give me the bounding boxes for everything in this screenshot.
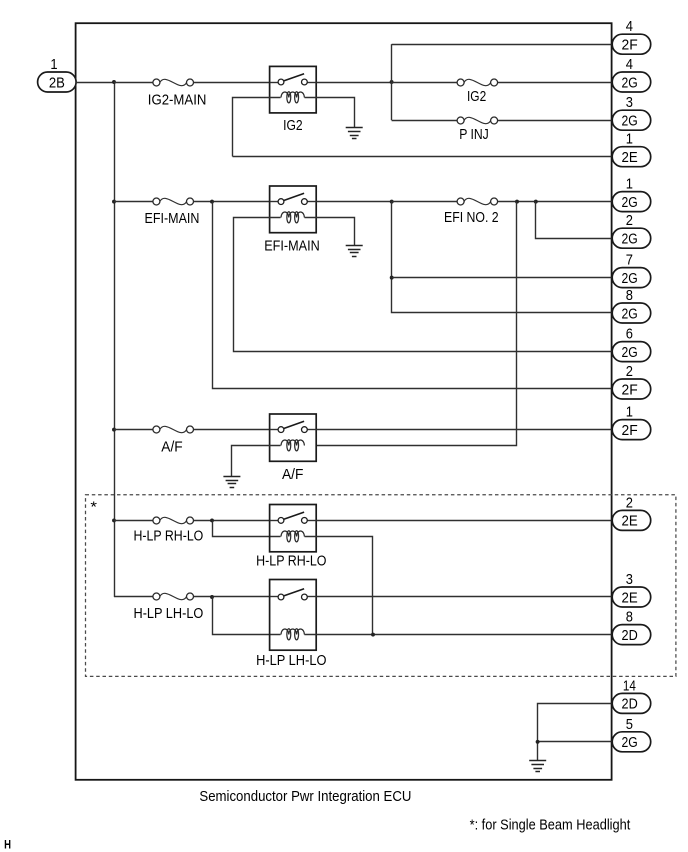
wire bus to fuse H-LP RH-LO xyxy=(114,520,153,522)
svg-text:2E: 2E xyxy=(622,513,638,530)
wire fuse EFI-MAIN to relay xyxy=(193,201,269,203)
wire relay EFI-MAIN output to node xyxy=(316,201,392,203)
connector 2G pin 5 xyxy=(612,732,651,752)
label fuse H-LP RH-LO xyxy=(134,528,204,544)
label relay EFI-MAIN xyxy=(264,238,320,254)
svg-text:*: for Single Beam Headlight: *: for Single Beam Headlight xyxy=(470,817,631,833)
caption ECU name xyxy=(199,789,411,805)
fuse H-LP RH-LO xyxy=(153,517,194,524)
wire bus to fuse EFI-MAIN xyxy=(114,201,153,203)
svg-text:2G: 2G xyxy=(622,194,638,211)
wire to connector 2G pin 7 xyxy=(392,277,613,279)
connector 2G pin 6 xyxy=(612,342,651,362)
ECU case outline xyxy=(76,23,612,780)
connector 2D pin 14 xyxy=(612,693,651,713)
svg-text:H-LP RH-LO: H-LP RH-LO xyxy=(256,554,326,570)
junction H-LP RH-LO fuse output xyxy=(210,518,214,522)
svg-text:2G: 2G xyxy=(622,113,638,130)
wire to connector 2G pin 2 xyxy=(536,202,613,239)
connector 2G pin 3 xyxy=(612,110,651,130)
caption footnote xyxy=(470,817,631,833)
connector 2G pin 8 xyxy=(612,303,651,323)
wire relay EFI-MAIN coil right lead xyxy=(305,218,355,246)
svg-text:2F: 2F xyxy=(622,381,638,398)
label relay IG2 xyxy=(283,118,303,134)
svg-text:2: 2 xyxy=(626,213,633,229)
connector 2G pin 3 label xyxy=(626,95,633,111)
wire fuse H-LP RH-LO to relay xyxy=(193,520,269,522)
junction IG2 output node xyxy=(390,80,394,84)
svg-text:3: 3 xyxy=(626,572,633,588)
junction bus A/F row xyxy=(112,428,116,432)
connector 2B xyxy=(38,72,77,92)
svg-text:1: 1 xyxy=(626,132,633,148)
junction bus EFI-MAIN row xyxy=(112,200,116,204)
wire fuse P INJ to connector 2G pin 3 xyxy=(498,120,613,122)
svg-text:2G: 2G xyxy=(622,305,638,322)
svg-text:2E: 2E xyxy=(622,589,638,606)
svg-text:Semiconductor Pwr Integration: Semiconductor Pwr Integration ECU xyxy=(199,789,411,805)
svg-text:2E: 2E xyxy=(622,149,638,166)
svg-text:7: 7 xyxy=(626,253,633,269)
svg-text:4: 4 xyxy=(626,57,633,73)
fuse P INJ xyxy=(457,117,498,124)
wire junction down to 2F pin 2 row xyxy=(213,202,613,389)
label fuse EFI-MAIN xyxy=(145,211,200,227)
svg-text:2G: 2G xyxy=(622,734,638,751)
dashed region (Single Beam Headlight option) xyxy=(86,495,676,677)
wire coil feed RH xyxy=(213,521,281,537)
connector 2G pin 6 label xyxy=(626,327,633,343)
connector 2G pin 2 label xyxy=(626,213,633,229)
wire vertical to A/F coil xyxy=(317,202,517,446)
fuse EFI NO. 2 xyxy=(457,198,498,205)
svg-text:14: 14 xyxy=(623,678,636,694)
wire 2B to bus junction xyxy=(76,82,114,84)
label fuse EFI NO. 2 xyxy=(444,210,499,226)
svg-text:1: 1 xyxy=(50,57,57,73)
wire connector 2G pin 5 net xyxy=(538,741,613,743)
junction EFI-MAIN fuse output xyxy=(210,200,214,204)
junction EFI output node 1 xyxy=(390,200,394,204)
connector 2G pin 7 label xyxy=(626,253,633,269)
svg-text:EFI NO. 2: EFI NO. 2 xyxy=(444,210,499,226)
connector 2G pin 8 label xyxy=(626,288,633,304)
connector 2G pin 4 label xyxy=(626,57,633,73)
wire bus to fuse A/F xyxy=(114,429,153,431)
svg-text:P INJ: P INJ xyxy=(459,127,489,143)
fuse IG2 xyxy=(457,79,498,86)
svg-text:H-LP RH-LO: H-LP RH-LO xyxy=(134,528,204,544)
svg-text:2F: 2F xyxy=(622,422,638,439)
junction A/F coil feed xyxy=(515,200,519,204)
fuse H-LP LH-LO xyxy=(153,593,194,600)
label relay A/F xyxy=(282,467,303,483)
connector 2D pin 14 label xyxy=(623,678,636,694)
wire connector 2D pin 14 net xyxy=(538,704,613,761)
connector 2E pin 2 label xyxy=(626,495,633,511)
svg-text:2G: 2G xyxy=(622,344,638,361)
connector 2G pin 1 label xyxy=(626,177,633,193)
connector 2F pin 2 label xyxy=(626,364,633,380)
connector 2G pin 5 label xyxy=(626,717,633,733)
wire node to fuse IG2 xyxy=(392,82,458,84)
label fuse P INJ xyxy=(459,127,489,143)
connector 2G pin 1 xyxy=(612,192,651,212)
wire node to connector 2E pin 1 xyxy=(233,156,613,158)
wire to connector 2F pin 4 xyxy=(392,44,613,46)
svg-text:2B: 2B xyxy=(49,74,65,91)
wire fuse IG2 to connector 2G pin 4 xyxy=(498,82,613,84)
wire fuse EFI NO. 2 to connector 2G pin 1 xyxy=(498,201,613,203)
connector 2D pin 8 xyxy=(612,625,651,645)
svg-text:A/F: A/F xyxy=(282,467,303,483)
connector 2E pin 1 label xyxy=(626,132,633,148)
wire relay IG2 coil right lead xyxy=(305,98,355,128)
fuse IG2-MAIN xyxy=(153,79,194,86)
relay A/F xyxy=(270,414,317,461)
junction coil lines 2D8 xyxy=(371,633,375,637)
svg-text:3: 3 xyxy=(626,95,633,111)
ground relay EFI-MAIN coil xyxy=(346,246,363,257)
svg-text:8: 8 xyxy=(626,288,633,304)
label fuse IG2-MAIN xyxy=(148,92,207,108)
wire main bus vertical xyxy=(114,82,116,597)
svg-text:4: 4 xyxy=(626,19,633,35)
wire fuse IG2-MAIN to relay IG2 xyxy=(193,82,269,84)
wire relay H-LP RH-LO coil right lead xyxy=(305,537,373,635)
ground ECU internal xyxy=(529,761,546,772)
connector 2E pin 2 xyxy=(612,510,651,530)
junction 2G2 tap xyxy=(534,200,538,204)
svg-text:IG2: IG2 xyxy=(467,89,486,105)
svg-text:2G: 2G xyxy=(622,270,638,287)
svg-text:EFI-MAIN: EFI-MAIN xyxy=(145,211,200,227)
svg-text:EFI-MAIN: EFI-MAIN xyxy=(264,238,320,254)
wire bus to fuse IG2-MAIN xyxy=(114,82,153,84)
label fuse IG2 xyxy=(467,89,486,105)
connector 2F pin 4 xyxy=(612,34,651,54)
relay H-LP LH-LO xyxy=(270,580,317,651)
connector 2G pin 2 xyxy=(612,228,651,248)
connector 2E pin 3 label xyxy=(626,572,633,588)
svg-text:1: 1 xyxy=(626,177,633,193)
svg-text:IG2-MAIN: IG2-MAIN xyxy=(148,92,207,108)
asterisk footnote marker xyxy=(90,499,97,516)
label relay H-LP LH-LO xyxy=(256,653,326,669)
relay H-LP RH-LO xyxy=(270,505,317,552)
wire relay H-LP LH-LO coil to connector 2D pin 8 xyxy=(304,634,612,636)
svg-text:2G: 2G xyxy=(622,231,638,248)
svg-text:2: 2 xyxy=(626,495,633,511)
connector 2F pin 2 xyxy=(612,379,651,399)
junction ground net xyxy=(536,740,540,744)
connector 2F pin 1 xyxy=(612,420,651,440)
wire node vertical to 2G7/2G8 xyxy=(392,202,613,313)
fuse EFI-MAIN xyxy=(153,198,194,205)
wire node to fuse P INJ xyxy=(392,120,458,122)
wire relay IG2 output to node xyxy=(316,82,391,84)
wire relay IG2 coil left lead xyxy=(233,98,281,157)
fuse A/F xyxy=(153,426,194,433)
wire relay EFI-MAIN coil left lead xyxy=(234,218,613,352)
svg-text:H-LP LH-LO: H-LP LH-LO xyxy=(256,653,326,669)
svg-text:8: 8 xyxy=(626,610,633,626)
svg-text:2F: 2F xyxy=(622,37,638,54)
wire relay H-LP RH-LO output to connector 2E pin 2 xyxy=(316,520,612,522)
wire coil feed LH xyxy=(213,597,281,635)
junction H-LP LH-LO fuse output xyxy=(210,595,214,599)
label fuse H-LP LH-LO xyxy=(134,606,204,622)
wire fuse A/F to relay xyxy=(193,429,269,431)
connector 2G pin 4 xyxy=(612,72,651,92)
connector 2G pin 7 xyxy=(612,268,651,288)
junction 2G7 tap xyxy=(390,276,394,280)
svg-text:2D: 2D xyxy=(622,696,638,713)
connector 2D pin 8 label xyxy=(626,610,633,626)
junction bus IG2-MAIN row xyxy=(112,80,116,84)
svg-text:2: 2 xyxy=(626,364,633,380)
label fuse A/F xyxy=(161,439,182,455)
svg-text:H: H xyxy=(4,839,11,851)
wire relay A/F output to connector 2F pin 1 xyxy=(316,429,612,431)
junction bus H-LP RH-LO row xyxy=(112,518,116,522)
svg-text:6: 6 xyxy=(626,327,633,343)
ground relay IG2 coil xyxy=(346,128,363,139)
svg-text:A/F: A/F xyxy=(161,439,182,455)
svg-text:1: 1 xyxy=(626,405,633,421)
svg-text:H-LP LH-LO: H-LP LH-LO xyxy=(134,606,204,622)
svg-text:2G: 2G xyxy=(622,74,638,91)
svg-text:2D: 2D xyxy=(622,627,638,644)
svg-text:IG2: IG2 xyxy=(283,118,303,134)
svg-text:*: * xyxy=(90,499,97,516)
wire bus corner to fuse H-LP LH-LO xyxy=(114,596,153,598)
label relay H-LP RH-LO xyxy=(256,554,326,570)
wire relay H-LP LH-LO output to connector 2E pin 3 xyxy=(316,596,612,598)
connector 2E pin 1 xyxy=(612,147,651,167)
wire node vertical 2F4-PINJ xyxy=(391,44,393,120)
relay EFI-MAIN xyxy=(270,186,317,233)
relay IG2 xyxy=(270,66,317,113)
svg-text:5: 5 xyxy=(626,717,633,733)
connector 2E pin 3 xyxy=(612,587,651,607)
connector 2B pin 1 label xyxy=(50,57,57,73)
wire fuse H-LP LH-LO to relay xyxy=(193,596,269,598)
connector 2F pin 4 label xyxy=(626,19,633,35)
wire node to fuse EFI NO. 2 xyxy=(392,201,458,203)
connector 2F pin 1 label xyxy=(626,405,633,421)
ground relay A/F coil xyxy=(223,477,240,488)
page letter H xyxy=(4,839,11,851)
wire relay A/F coil left lead xyxy=(232,446,281,477)
